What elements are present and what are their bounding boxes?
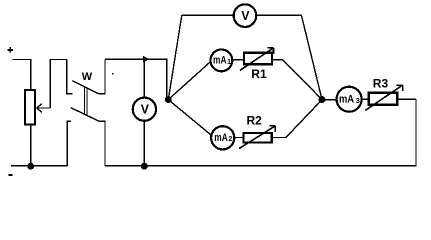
resistor R2 box [244, 133, 272, 142]
transistor W bottom-right electrode hook and wire down [99, 121, 105, 165]
wire bottom-left bus [11, 165, 67, 167]
svg-text:mA: mA [214, 132, 228, 144]
svg-text:3: 3 [356, 96, 360, 105]
transistor W bottom-left electrode wire with hook [67, 121, 71, 166]
current direction arrow on top bus [143, 56, 149, 63]
ammeter mA1 [211, 50, 233, 72]
transistor W germanium plate (double line) [84, 86, 85, 114]
ammeter mA2 [211, 126, 234, 149]
stray speck [112, 73, 113, 74]
wire right node to mA3 [322, 99, 336, 101]
wire from + to potentiometer top [13, 60, 31, 90]
svg-text:R1: R1 [251, 67, 267, 81]
wire node to mA1 [168, 61, 211, 100]
wire R1 to right node [273, 59, 283, 61]
svg-text:R3: R3 [373, 77, 389, 91]
wire mA1 to R1 [233, 59, 243, 61]
voltmeter V2 (middle) [133, 98, 156, 121]
svg-text:W: W [82, 71, 93, 83]
transistor W lower point contact (diagonal) [71, 108, 100, 122]
resistor R3 box [369, 93, 397, 105]
resistor R3 variable arrow [365, 85, 402, 110]
resistor R1 variable arrow [240, 48, 274, 71]
wire V loop left diagonal [168, 15, 182, 99]
top bus wire to right [105, 59, 167, 99]
transistor W top-right electrode hook and wire [98, 59, 105, 93]
resistor R2 variable arrow [239, 126, 275, 149]
svg-text:V: V [141, 103, 150, 117]
wire V loop top right horizontal [257, 14, 301, 16]
resistor R1 box [244, 53, 272, 64]
svg-text:mA: mA [213, 55, 227, 67]
wire wiper up and over to W top-left [50, 60, 67, 109]
bottom bus right section [105, 99, 416, 166]
voltmeter V1 (top) [234, 4, 257, 27]
wiper arrow of potentiometer [37, 107, 50, 109]
node lower-left junction [27, 163, 34, 170]
wire R2 to right node [273, 137, 286, 139]
battery plus terminal [8, 47, 13, 52]
battery minus terminal [9, 174, 13, 176]
node A (left star node) [165, 96, 172, 103]
ammeter mA3 [337, 87, 362, 112]
svg-text:1: 1 [227, 59, 231, 66]
svg-text:mA: mA [339, 94, 354, 106]
wire R3 to right bus [398, 98, 416, 100]
wire potentiometer bottom to lower-left junction [30, 126, 32, 166]
svg-text:2: 2 [228, 136, 232, 143]
transistor W upper point contact (diagonal) [72, 81, 98, 94]
wire V branch bottom [143, 122, 145, 166]
svg-text:R2: R2 [247, 114, 263, 128]
transistor W top-left electrode wire with hook [67, 60, 73, 94]
wire V loop top left horizontal [182, 14, 233, 16]
wire mA2 to R2 [235, 137, 243, 139]
node B (right node) [319, 96, 326, 103]
wire V branch top [143, 59, 145, 97]
node bottom junction at V branch [141, 163, 148, 170]
wire V loop right diagonal [301, 15, 322, 99]
svg-text:V: V [241, 9, 250, 23]
wire mA3 to R3 [362, 98, 368, 100]
wire node to mA2 [168, 100, 212, 137]
potentiometer P (rheostat box) [25, 90, 35, 125]
